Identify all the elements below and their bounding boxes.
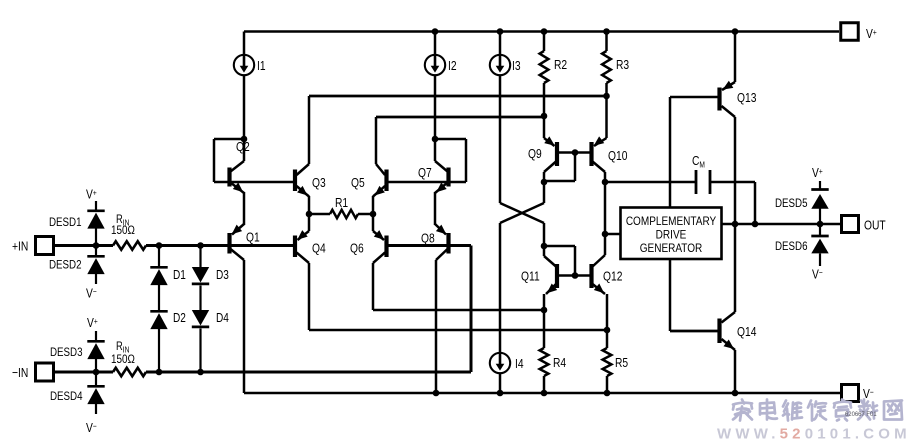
svg-text:Q10: Q10 <box>608 148 628 164</box>
svg-text:R3: R3 <box>616 57 630 73</box>
svg-text:DESD3: DESD3 <box>50 346 83 359</box>
svg-text:Q14: Q14 <box>737 324 757 340</box>
svg-text:+IN: +IN <box>12 238 28 254</box>
svg-text:OUT: OUT <box>864 217 886 233</box>
svg-text:R4: R4 <box>553 355 567 371</box>
svg-text:D3: D3 <box>216 269 229 282</box>
svg-text:I3: I3 <box>512 58 521 74</box>
svg-text:COMPLEMENTARY: COMPLEMENTARY <box>626 215 717 228</box>
svg-text:DRIVE: DRIVE <box>656 229 687 242</box>
svg-text:GENERATOR: GENERATOR <box>640 242 703 255</box>
svg-text:I2: I2 <box>448 58 457 74</box>
svg-text:DESD2: DESD2 <box>49 259 82 272</box>
svg-text:Q3: Q3 <box>312 175 326 191</box>
svg-text:Q12: Q12 <box>603 268 622 284</box>
svg-text:−IN: −IN <box>12 365 28 381</box>
svg-text:D4: D4 <box>216 312 229 325</box>
svg-text:620667 F01: 620667 F01 <box>845 411 877 418</box>
svg-text:Q7: Q7 <box>418 165 432 181</box>
svg-text:WWW.520101.COM: WWW.520101.COM <box>717 426 911 443</box>
svg-text:R5: R5 <box>615 355 629 371</box>
svg-text:Q13: Q13 <box>737 90 757 106</box>
svg-text:Q5: Q5 <box>351 175 365 191</box>
svg-text:Q4: Q4 <box>312 240 326 256</box>
svg-text:D2: D2 <box>173 312 186 325</box>
svg-text:DESD6: DESD6 <box>775 240 808 253</box>
svg-text:Q2: Q2 <box>236 139 250 155</box>
svg-text:I1: I1 <box>257 58 266 74</box>
svg-text:I4: I4 <box>515 356 524 372</box>
svg-text:Q11: Q11 <box>521 268 540 284</box>
svg-text:DESD1: DESD1 <box>49 216 82 229</box>
svg-text:Q9: Q9 <box>528 146 542 162</box>
svg-text:Q6: Q6 <box>350 240 364 256</box>
svg-text:150Ω: 150Ω <box>111 224 135 237</box>
svg-text:DESD4: DESD4 <box>50 390 83 403</box>
svg-text:D1: D1 <box>173 269 186 282</box>
svg-text:DESD5: DESD5 <box>775 197 808 210</box>
svg-text:150Ω: 150Ω <box>111 353 135 366</box>
svg-text:Q8: Q8 <box>421 230 435 246</box>
svg-text:Q1: Q1 <box>246 229 260 245</box>
svg-text:R1: R1 <box>335 195 348 211</box>
svg-text:R2: R2 <box>554 57 567 73</box>
